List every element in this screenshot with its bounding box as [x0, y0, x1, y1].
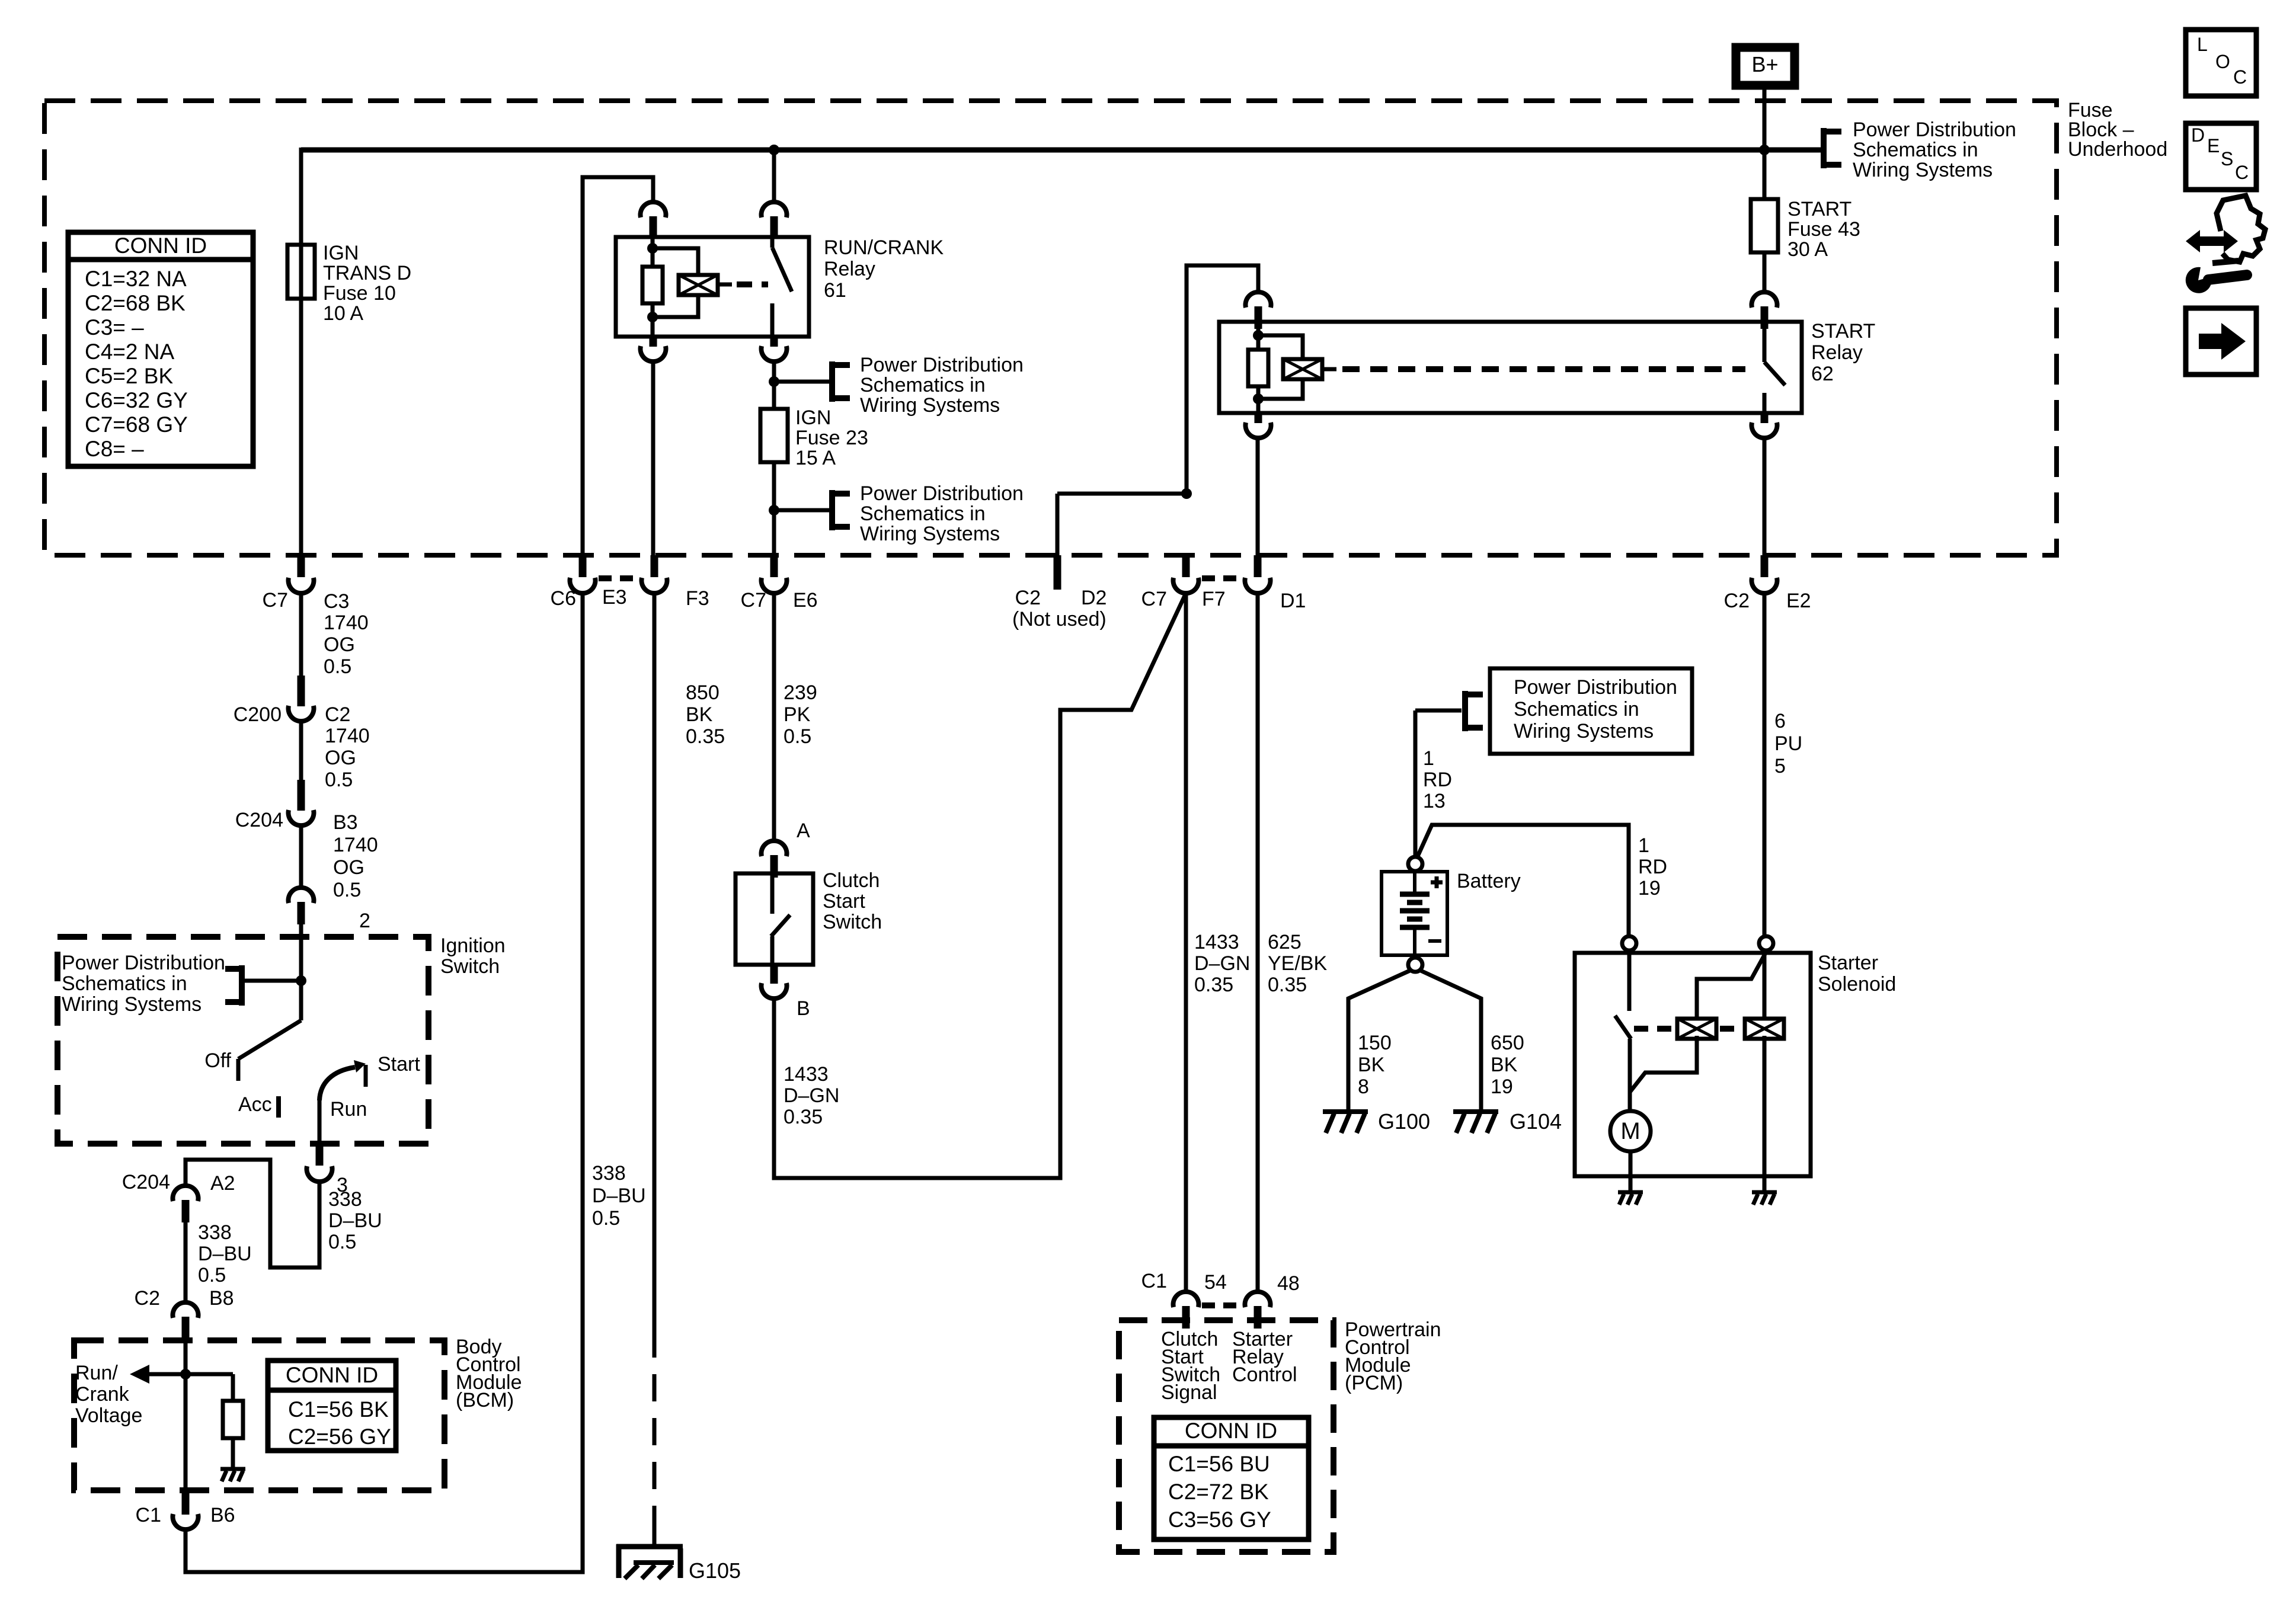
- svg-text:Run: Run: [330, 1098, 367, 1121]
- label 54: [1204, 1271, 1227, 1294]
- connector clutch B: [762, 965, 787, 998]
- connector relay62 switch bottom: [1752, 413, 1777, 438]
- CONN ID table (fuse block): [68, 232, 253, 466]
- label B8: [209, 1287, 234, 1310]
- connector row dash F7-D1: [1202, 575, 1241, 581]
- ignition Run-to-Start curve with arrow: [319, 1060, 366, 1100]
- wire 1 RD 19 from battery to solenoid: [1418, 825, 1629, 936]
- label 1433 D-GN 0.35 (PCM): [1194, 931, 1250, 996]
- label C200: [234, 703, 282, 726]
- svg-text:E: E: [2207, 135, 2220, 156]
- off-page bracket ignition: [225, 965, 301, 1006]
- relay61 coil parallel branch and coil: [653, 248, 732, 317]
- ignition switch dashed box: [57, 937, 428, 1144]
- svg-text:CONN ID: CONN ID: [286, 1363, 378, 1387]
- svg-text:338: 338: [328, 1188, 362, 1211]
- label C204 (B3): [235, 809, 283, 831]
- svg-text:54: 54: [1204, 1271, 1227, 1294]
- clutch switch internals: [771, 873, 790, 965]
- svg-text:0.35: 0.35: [1194, 974, 1233, 996]
- svg-text:CONN ID: CONN ID: [1185, 1419, 1277, 1443]
- PCM dashed box: [1119, 1320, 1334, 1552]
- svg-text:1: 1: [1423, 747, 1434, 770]
- svg-text:Fuse 23: Fuse 23: [795, 427, 868, 449]
- svg-text:C5=2 BK: C5=2 BK: [85, 364, 173, 388]
- svg-text:RD: RD: [1638, 856, 1667, 878]
- svg-text:Fuse 10: Fuse 10: [323, 282, 396, 305]
- svg-text:0.5: 0.5: [325, 769, 353, 791]
- svg-text:G104: G104: [1510, 1109, 1562, 1134]
- label C2 (E2): [1724, 590, 1750, 612]
- svg-text:Acc: Acc: [238, 1093, 272, 1116]
- battery positive terminal circle: [1408, 857, 1422, 871]
- solenoid link dashes: [1634, 1026, 1741, 1032]
- svg-text:Solenoid: Solenoid: [1818, 973, 1896, 996]
- wire B6 to E3 riser: [186, 592, 583, 1572]
- label Clutch Start Switch: [823, 869, 882, 933]
- fuse IGN Fuse 23: [760, 409, 788, 462]
- svg-text:0.5: 0.5: [592, 1207, 620, 1230]
- connector C7/F7: [1173, 555, 1198, 593]
- junction dot switch output / off-page 1: [769, 376, 779, 387]
- connector row dash C6-F3: [599, 575, 638, 581]
- wire motor to ground: [1629, 1111, 1633, 1192]
- wire hold-in coil to ground: [1763, 1176, 1767, 1192]
- note Power Distribution Schematics (top right): [1853, 119, 2016, 181]
- icon LOC box: [2186, 30, 2256, 96]
- relay62 coil left leg with resistor: [1248, 322, 1268, 413]
- label 239 PK 0.5: [784, 681, 817, 748]
- svg-text:Switch: Switch: [823, 911, 882, 933]
- label D2: [1081, 587, 1107, 609]
- connector relay61 coil bottom: [641, 337, 666, 361]
- svg-text:1433: 1433: [784, 1063, 829, 1086]
- wire E2 6 PU down to solenoid: [1763, 592, 1767, 936]
- svg-text:48: 48: [1277, 1272, 1300, 1295]
- note Power Distribution Schematics (ignition): [62, 952, 225, 1016]
- BCM pulldown resistor branch: [186, 1374, 243, 1468]
- svg-text:C3= –: C3= –: [85, 315, 144, 340]
- label C1 (PCM): [1141, 1270, 1167, 1292]
- svg-text:1: 1: [1638, 834, 1649, 857]
- ignition Start contact: [364, 1065, 368, 1087]
- wire F3 850 BK to G105: [653, 592, 657, 1330]
- label Run/Crank Voltage: [75, 1362, 142, 1427]
- svg-text:Wiring Systems: Wiring Systems: [1853, 159, 1993, 181]
- svg-text:Signal: Signal: [1161, 1381, 1217, 1404]
- svg-text:650: 650: [1491, 1032, 1524, 1054]
- svg-text:C200: C200: [234, 703, 282, 726]
- svg-text:8: 8: [1358, 1076, 1369, 1098]
- label A: [797, 820, 810, 842]
- battery plus sign: [1431, 876, 1443, 888]
- svg-text:10 A: 10 A: [323, 302, 363, 325]
- off-page bracket 2 (IGN feed 2): [774, 490, 850, 530]
- svg-text:BK: BK: [1358, 1054, 1385, 1076]
- svg-text:D–GN: D–GN: [784, 1084, 839, 1107]
- off-page bracket to Power Distribution (top right): [1822, 128, 1841, 168]
- svg-text:C6=32 GY: C6=32 GY: [85, 388, 188, 412]
- svg-text:Wiring Systems: Wiring Systems: [860, 394, 1000, 417]
- svg-text:Start: Start: [378, 1053, 420, 1076]
- svg-text:61: 61: [824, 279, 846, 302]
- connector C204/A2: [173, 1186, 199, 1222]
- connector C2/E2: [1752, 555, 1777, 593]
- wire B+ vertical into fuse block: [1763, 89, 1767, 199]
- relay61 coil left leg with resistor: [642, 237, 663, 337]
- svg-text:RD: RD: [1423, 769, 1452, 791]
- label B3: [333, 811, 358, 834]
- svg-text:19: 19: [1491, 1076, 1513, 1098]
- label E6: [793, 589, 818, 612]
- off-page bracket battery: [1415, 691, 1483, 731]
- svg-text:A: A: [797, 820, 810, 842]
- note Power Distribution Schematics (mid 2): [860, 482, 1024, 545]
- battery minus sign: [1428, 939, 1441, 943]
- label B: [797, 997, 810, 1020]
- label G105: [689, 1558, 741, 1583]
- label G100: [1378, 1109, 1430, 1134]
- label Powertrain Control Module (PCM): [1345, 1318, 1441, 1394]
- CONN ID table (BCM): [268, 1361, 396, 1451]
- svg-text:A2: A2: [210, 1172, 235, 1195]
- svg-text:G105: G105: [689, 1558, 741, 1583]
- wire relay61 coil low side to F3: [651, 361, 655, 555]
- label C2 (C200): [325, 703, 350, 726]
- svg-text:0.5: 0.5: [324, 655, 351, 678]
- svg-text:CONN ID: CONN ID: [114, 233, 207, 258]
- connector row dash PCM: [1202, 1302, 1241, 1308]
- svg-text:C7: C7: [1141, 588, 1167, 610]
- label IGN Fuse 23 15A: [795, 406, 868, 469]
- label 625 YE/BK 0.35: [1268, 931, 1327, 996]
- label 338 D-BU 0.5 (A2 leg): [198, 1221, 252, 1286]
- relay62 switch: [1764, 322, 1785, 413]
- svg-text:OG: OG: [325, 747, 356, 769]
- label START Fuse 43 30A: [1787, 198, 1860, 261]
- wire top bus horizontal: [301, 148, 1821, 153]
- svg-text:(BCM): (BCM): [456, 1389, 514, 1411]
- relay61 switch: [772, 237, 792, 337]
- wire battery neg to G104: [1419, 970, 1481, 1113]
- svg-text:BK: BK: [686, 703, 713, 726]
- svg-text:C4=2 NA: C4=2 NA: [85, 340, 174, 364]
- svg-text:YE/BK: YE/BK: [1268, 952, 1327, 975]
- connector PCM 54: [1173, 1292, 1199, 1329]
- relay START Relay 62 box: [1219, 322, 1802, 413]
- label Battery: [1457, 870, 1521, 892]
- svg-text:62: 62: [1811, 363, 1834, 385]
- label 48: [1277, 1272, 1300, 1295]
- svg-text:START: START: [1787, 198, 1851, 220]
- label 650 BK 19: [1491, 1032, 1524, 1098]
- svg-text:IGN: IGN: [323, 242, 359, 264]
- svg-text:0.35: 0.35: [1268, 974, 1307, 996]
- svg-text:C2: C2: [135, 1287, 160, 1310]
- label Body Control Module (BCM): [456, 1336, 522, 1411]
- svg-text:13: 13: [1423, 790, 1446, 812]
- svg-text:C7: C7: [263, 589, 288, 612]
- ignition switch blade to Off: [238, 1020, 301, 1081]
- label START Relay 62: [1811, 320, 1875, 385]
- svg-text:Relay: Relay: [824, 258, 875, 280]
- svg-text:Voltage: Voltage: [75, 1404, 142, 1427]
- svg-text:Relay: Relay: [1811, 341, 1863, 364]
- ground G105: [616, 1544, 683, 1579]
- svg-text:B6: B6: [210, 1504, 235, 1526]
- label Acc: [238, 1093, 272, 1116]
- svg-text:0.5: 0.5: [328, 1231, 356, 1253]
- label 1740 OG 0.5 (mid): [325, 725, 370, 791]
- connector C204/B3: [288, 780, 314, 825]
- label C7 (F7): [1141, 588, 1167, 610]
- svg-text:625: 625: [1268, 931, 1302, 953]
- label 1740 OG 0.5 (upper): [324, 612, 369, 678]
- svg-text:Power Distribution: Power Distribution: [62, 952, 225, 974]
- svg-text:B8: B8: [209, 1287, 234, 1310]
- ground starter motor: [1618, 1192, 1643, 1205]
- svg-text:Battery: Battery: [1457, 870, 1521, 892]
- svg-text:B: B: [797, 997, 810, 1020]
- svg-text:0.35: 0.35: [784, 1106, 823, 1128]
- svg-text:15 A: 15 A: [795, 447, 836, 469]
- svg-text:338: 338: [198, 1221, 232, 1244]
- svg-text:TRANS D: TRANS D: [323, 262, 411, 284]
- label F7: [1202, 588, 1226, 610]
- svg-text:Run/: Run/: [75, 1362, 118, 1384]
- svg-text:E3: E3: [602, 586, 627, 609]
- solenoid hold-in coil: [1745, 954, 1784, 1176]
- fuse IGN TRANS D Fuse 10: [287, 245, 315, 299]
- wire relay61 coil feed (E3 to coil): [583, 177, 653, 555]
- motor M: [1610, 1111, 1651, 1151]
- label 3 (ign pin): [337, 1174, 348, 1196]
- label 338 D-BU 0.5 (run leg): [328, 1188, 382, 1253]
- label C6: [551, 587, 576, 610]
- label C2 (D2): [1015, 587, 1041, 609]
- label 150 BK 8: [1358, 1032, 1392, 1098]
- connector C7/E6: [762, 555, 787, 593]
- svg-text:C1=56 BU: C1=56 BU: [1168, 1452, 1270, 1476]
- svg-text:F7: F7: [1202, 588, 1226, 610]
- wire F7 to PCM 54: [1184, 592, 1188, 1292]
- icon wrench: [2186, 261, 2247, 293]
- svg-text:OG: OG: [324, 633, 355, 656]
- junction dot bus / relay61 switch feed: [769, 145, 779, 155]
- solenoid terminal circle left: [1622, 936, 1636, 950]
- svg-text:Wiring Systems: Wiring Systems: [1514, 720, 1654, 742]
- wire ign feed inside: [299, 924, 303, 1020]
- wire relay61 switch feed: [772, 150, 776, 202]
- icon arrow box: [2186, 308, 2256, 375]
- svg-text:338: 338: [592, 1162, 626, 1185]
- svg-text:C3=56 GY: C3=56 GY: [1168, 1507, 1271, 1532]
- connector clutch A: [762, 841, 787, 878]
- wire C204 to ignition pin 2: [299, 825, 303, 888]
- svg-text:239: 239: [784, 681, 817, 704]
- svg-text:0.5: 0.5: [333, 879, 361, 901]
- svg-text:Start: Start: [823, 890, 865, 913]
- svg-text:0.5: 0.5: [198, 1264, 226, 1286]
- label 6 PU 5: [1774, 710, 1802, 777]
- label Fuse Block - Underhood: [2068, 99, 2167, 161]
- svg-text:C8= –: C8= –: [85, 437, 144, 461]
- svg-text:19: 19: [1638, 877, 1661, 900]
- solenoid pull-in coil branch: [1630, 954, 1765, 1092]
- svg-text:850: 850: [686, 681, 720, 704]
- clutch start switch box: [736, 873, 813, 965]
- icon DESC box: [2186, 123, 2256, 190]
- svg-text:Wiring Systems: Wiring Systems: [62, 993, 202, 1016]
- wire Run position down: [318, 1098, 322, 1144]
- solenoid terminal circle right: [1759, 936, 1773, 950]
- solenoid switch: [1615, 953, 1631, 1111]
- label Starter Relay Control: [1232, 1328, 1297, 1386]
- wire relay62 coil feed from F7/D2: [1187, 265, 1258, 494]
- svg-text:C1=32 NA: C1=32 NA: [85, 267, 187, 291]
- connector relay62 coil bottom: [1246, 413, 1271, 438]
- svg-text:C: C: [2235, 162, 2249, 183]
- label 1 RD 19: [1638, 834, 1667, 900]
- svg-text:PU: PU: [1774, 732, 1802, 755]
- wire below fuse 23: [772, 462, 776, 555]
- connector C6/E3: [570, 555, 596, 593]
- svg-text:C3: C3: [324, 590, 349, 613]
- svg-text:OG: OG: [333, 856, 364, 879]
- wire E6 239 PK down: [772, 592, 776, 841]
- svg-text:START: START: [1811, 320, 1875, 343]
- svg-text:C6: C6: [551, 587, 576, 610]
- svg-text:Power Distribution: Power Distribution: [1853, 119, 2016, 141]
- ground G100: [1323, 1112, 1368, 1133]
- svg-text:D: D: [2191, 124, 2205, 146]
- label E2: [1786, 590, 1811, 612]
- svg-text:E2: E2: [1786, 590, 1811, 612]
- stub C2/D2 not used: [1054, 555, 1061, 590]
- svg-text:C2: C2: [1724, 590, 1750, 612]
- wire C200 to C204: [299, 721, 303, 780]
- label 850 BK 0.35: [686, 681, 725, 748]
- Run/Crank Voltage arrow: [130, 1365, 186, 1384]
- connector relay61 switch bottom: [762, 337, 787, 361]
- connector ignition pin 3: [307, 1144, 332, 1182]
- connector relay62 switch top: [1752, 292, 1777, 329]
- svg-text:O: O: [2215, 51, 2230, 72]
- svg-text:S: S: [2221, 148, 2233, 169]
- label 1740 OG 0.5 (lower): [333, 834, 378, 901]
- svg-text:Ignition: Ignition: [440, 934, 506, 957]
- svg-text:RUN/CRANK: RUN/CRANK: [824, 236, 944, 259]
- ground solenoid: [1752, 1192, 1777, 1205]
- svg-text:Starter: Starter: [1818, 952, 1878, 974]
- connector PCM 48: [1245, 1292, 1271, 1329]
- svg-text:150: 150: [1358, 1032, 1392, 1054]
- svg-text:C2: C2: [1015, 587, 1041, 609]
- label C7 (E6): [741, 589, 766, 612]
- svg-text:C7: C7: [741, 589, 766, 612]
- icon double arrow: [2186, 230, 2238, 252]
- svg-text:C1: C1: [136, 1504, 161, 1526]
- svg-text:Power Distribution: Power Distribution: [860, 482, 1024, 505]
- wire run leg U-turn to C204 A2: [186, 1160, 319, 1267]
- node B+ terminal box: [1736, 47, 1795, 85]
- wire battery neg to G100: [1348, 970, 1411, 1113]
- svg-text:D–BU: D–BU: [328, 1209, 382, 1232]
- CONN ID table (PCM): [1154, 1417, 1309, 1539]
- svg-text:B3: B3: [333, 811, 358, 834]
- label Starter Solenoid: [1818, 952, 1896, 996]
- label 338 D-BU 0.5 (riser): [592, 1162, 646, 1230]
- svg-text:Schematics in: Schematics in: [1514, 698, 1639, 721]
- svg-text:IGN: IGN: [795, 406, 831, 429]
- connector C7/C3: [288, 555, 314, 593]
- svg-text:C2=68 BK: C2=68 BK: [85, 291, 186, 315]
- label C7 (left of C3 conn): [263, 589, 288, 612]
- label B6: [210, 1504, 235, 1526]
- svg-text:Underhood: Underhood: [2068, 138, 2167, 161]
- svg-text:1433: 1433: [1194, 931, 1239, 953]
- connector F3: [642, 555, 667, 593]
- junction dot relay62 coil feed split: [1181, 488, 1192, 499]
- svg-text:5: 5: [1774, 755, 1786, 777]
- svg-text:1740: 1740: [325, 725, 370, 747]
- svg-text:D2: D2: [1081, 587, 1107, 609]
- connector C200/C2: [288, 676, 314, 721]
- label C1 (B6): [136, 1504, 161, 1526]
- svg-text:C204: C204: [122, 1171, 170, 1193]
- relay61 mechanical link dashes: [737, 281, 768, 287]
- note box Power Distribution (battery): [1490, 668, 1692, 754]
- battery plates: [1400, 872, 1430, 955]
- svg-text:C7=68 GY: C7=68 GY: [85, 412, 188, 437]
- svg-text:1740: 1740: [324, 612, 369, 634]
- ground BCM internal: [220, 1469, 245, 1481]
- svg-text:F3: F3: [686, 587, 709, 610]
- label 1 RD 13: [1423, 747, 1452, 812]
- svg-text:C1=56 BK: C1=56 BK: [288, 1397, 389, 1422]
- svg-text:Clutch: Clutch: [823, 869, 880, 892]
- svg-text:(Not used): (Not used): [1012, 608, 1107, 630]
- wire dashed portion to G105: [653, 1330, 657, 1548]
- svg-text:G100: G100: [1378, 1109, 1430, 1134]
- fuse block - underhood dashed boundary box: [44, 101, 2057, 555]
- wire relay62 switch output to E2: [1763, 438, 1767, 555]
- label Start: [378, 1053, 420, 1076]
- svg-text:BK: BK: [1491, 1054, 1518, 1076]
- wire C3 to C200: [299, 592, 303, 676]
- junction dot BCM: [180, 1369, 191, 1379]
- svg-text:Power Distribution: Power Distribution: [1514, 676, 1677, 699]
- connector ignition pin 2: [288, 888, 314, 924]
- junction dot ignition feed: [296, 975, 306, 986]
- svg-text:0.35: 0.35: [686, 725, 725, 748]
- relay RUN/CRANK Relay 61 box: [616, 237, 809, 337]
- label RUN/CRANK Relay 61: [824, 236, 944, 302]
- svg-text:Schematics in: Schematics in: [860, 374, 986, 396]
- connector relay61 switch top: [762, 202, 787, 239]
- svg-text:Schematics in: Schematics in: [1853, 139, 1978, 161]
- svg-text:D1: D1: [1280, 590, 1306, 612]
- svg-text:Control: Control: [1232, 1363, 1297, 1386]
- connector BCM C1/B6: [173, 1490, 199, 1529]
- svg-text:C1: C1: [1141, 1270, 1167, 1292]
- wire fuse43 to relay62: [1763, 252, 1767, 292]
- ignition Acc position tick: [276, 1096, 281, 1118]
- svg-text:(PCM): (PCM): [1345, 1372, 1403, 1394]
- svg-text:Wiring Systems: Wiring Systems: [860, 523, 1000, 545]
- relay62 mechanical link dashes: [1342, 366, 1745, 372]
- ground G104: [1453, 1112, 1498, 1133]
